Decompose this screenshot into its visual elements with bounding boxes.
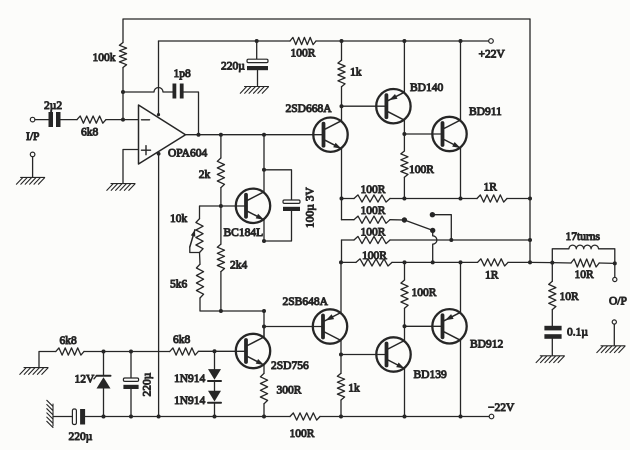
ground input <box>16 177 44 184</box>
capacitor 100µ 3V <box>283 200 300 211</box>
label 10R zobel <box>560 291 580 303</box>
capacitor 220µ bottom <box>72 409 85 425</box>
wire 100µ bottom branch <box>264 210 292 241</box>
svg-text:100µ 3V: 100µ 3V <box>305 186 317 228</box>
svg-text:O/P: O/P <box>609 296 627 308</box>
wire bias line <box>84 351 170 353</box>
svg-text:BD140: BD140 <box>410 82 443 94</box>
node row4 switch junction <box>431 260 435 264</box>
node row4 right <box>528 260 532 264</box>
resistor 100R row2 <box>354 216 390 223</box>
node 1k lower bottom <box>339 415 343 419</box>
resistor 1k lower <box>337 355 344 417</box>
wire row3 to row4 <box>341 240 343 262</box>
node feedback junction <box>121 90 125 94</box>
svg-text:220µ: 220µ <box>142 372 154 396</box>
label 100R driver <box>409 164 434 176</box>
svg-text:100k: 100k <box>93 52 116 64</box>
transistor Q1 2SD668A <box>313 118 347 152</box>
svg-text:100R: 100R <box>361 184 386 196</box>
resistor 10k trimmer <box>190 219 203 253</box>
label 220µ mid <box>142 372 154 396</box>
wire BD912 collector down <box>460 340 462 416</box>
node inverting input junction <box>121 118 125 122</box>
wire V- supply pin <box>157 152 161 417</box>
wire 100k bottom <box>122 68 124 120</box>
wire 220µ to ground <box>257 71 259 86</box>
label I/P <box>26 131 39 143</box>
svg-text:220µ: 220µ <box>221 61 245 73</box>
wire 2SB648A base <box>264 326 323 328</box>
svg-text:BC184L: BC184L <box>224 227 264 239</box>
transistor Q3 BD140 <box>376 89 410 123</box>
transistor Q4 2SB648A <box>313 309 347 343</box>
svg-text:1R: 1R <box>484 182 498 194</box>
resistor 100R row1 <box>354 195 390 202</box>
svg-text:1p8: 1p8 <box>174 68 192 80</box>
svg-text:100R: 100R <box>361 227 386 239</box>
label -22V <box>488 402 515 414</box>
svg-text:300R: 300R <box>277 385 302 397</box>
wire feedback with hop <box>123 88 173 93</box>
label 1p8 <box>174 68 192 80</box>
ground op-amp + <box>107 184 135 191</box>
node 220µ mid top <box>129 350 133 354</box>
label 2k4 <box>230 260 248 272</box>
switch throw upper contact <box>430 212 435 217</box>
svg-text:2k: 2k <box>199 169 211 181</box>
wire switch upper throw <box>432 215 451 240</box>
switch lever <box>404 220 432 230</box>
capacitor 1p8 <box>173 84 184 99</box>
ground O/P <box>597 346 625 353</box>
resistor 100R lower driver <box>401 262 408 326</box>
label 6k8 bias2 <box>173 334 191 346</box>
node 2k4 bottom <box>219 309 223 313</box>
wire +22V rail <box>159 40 291 42</box>
wire bottom rail <box>85 416 290 418</box>
label 6k8 input <box>81 127 99 139</box>
node 300R bottom <box>262 415 266 419</box>
inductor 17turns <box>552 245 615 263</box>
wire row1 <box>342 198 478 200</box>
input lower terminal <box>30 152 35 177</box>
label 1R upper <box>484 182 498 194</box>
node 2SB648A base junction <box>262 325 266 329</box>
label 1N914 first <box>174 373 206 385</box>
wire 10k to 5k6 <box>199 253 202 265</box>
transistor Q8 2SD756 <box>236 334 270 368</box>
label 100R row1 <box>361 184 386 196</box>
label 2SD668A <box>286 103 333 115</box>
wire BD911 collector up <box>459 39 463 120</box>
node row3 junction <box>449 238 453 242</box>
wire cap to 6k8 <box>61 119 78 121</box>
wire row3 <box>342 239 531 241</box>
node row4 left <box>339 260 343 264</box>
wire 5k6 bottom <box>200 298 264 311</box>
label 100µ 3V <box>305 186 317 228</box>
terminal +22V <box>489 39 494 44</box>
label BD139 <box>414 369 447 381</box>
svg-text:6k8: 6k8 <box>60 335 78 347</box>
input terminal I/P <box>30 117 48 122</box>
wire 2SB648A collector down <box>339 341 343 357</box>
wire BC184L collector <box>262 135 266 192</box>
wire 2SD668A emitter <box>341 149 343 199</box>
label 6k8 bias1 <box>60 335 78 347</box>
resistor 100k <box>119 43 126 68</box>
wire 100µ top branch <box>264 170 292 200</box>
wire row2 <box>342 219 405 221</box>
label 5k6 <box>170 279 188 291</box>
wire BD140 base <box>342 105 387 107</box>
svg-text:I/P: I/P <box>26 131 39 143</box>
svg-text:17turns: 17turns <box>566 231 601 243</box>
wire BD139 base <box>341 354 387 356</box>
capacitor 2µ2 <box>49 112 61 127</box>
diode D2 1N914 <box>208 381 221 417</box>
node row4 emitter junction <box>459 260 463 264</box>
capacitor 0.1µ <box>544 326 561 339</box>
transistor Q6 BD139 <box>376 337 410 371</box>
wire bottom rail right <box>320 416 489 418</box>
wire BD912 base <box>405 325 443 327</box>
wire 220µ top lead <box>256 41 258 59</box>
svg-text:100R: 100R <box>361 205 386 217</box>
label BC184L <box>224 227 264 239</box>
svg-text:100R: 100R <box>291 48 316 60</box>
wire 2SD668A collector <box>340 104 344 120</box>
svg-text:1R: 1R <box>485 270 499 282</box>
wire BD139 emitter down <box>404 369 406 417</box>
label 10R parallel <box>575 269 595 281</box>
label 2k <box>199 169 211 181</box>
ground zobel <box>536 356 564 363</box>
ground 220µ supply <box>240 87 268 94</box>
svg-text:2SD668A: 2SD668A <box>286 103 333 115</box>
label 100R bottom <box>290 428 315 440</box>
wire 2SD756 emitter down <box>263 365 265 373</box>
svg-text:12V: 12V <box>75 374 96 386</box>
wire BD140 emitter up <box>402 39 406 92</box>
node 1k top <box>340 39 344 43</box>
wire 2SB648A emitter up <box>340 262 342 312</box>
wire right rail <box>529 19 531 262</box>
wire 6k8 bias left <box>39 352 56 368</box>
label 100R supply <box>291 48 316 60</box>
svg-text:−22V: −22V <box>488 402 515 414</box>
svg-text:1N914: 1N914 <box>174 373 206 385</box>
node output right <box>613 261 617 265</box>
resistor 300R <box>260 373 267 416</box>
label 2µ2 <box>44 100 62 112</box>
node emitter column 311 <box>262 309 266 313</box>
wire 1p8 to output <box>184 92 199 135</box>
transistor Q7 BD912 <box>432 309 466 343</box>
svg-text:100R: 100R <box>290 428 315 440</box>
label +22V <box>479 49 506 61</box>
wire BD912 emitter up <box>460 262 462 312</box>
switch throw lower contact <box>430 228 435 233</box>
label 300R <box>277 385 302 397</box>
label 100R row4 <box>362 250 387 262</box>
wire BD911 emitter down <box>460 148 462 199</box>
svg-text:5k6: 5k6 <box>170 279 188 291</box>
transistor Q2 BC184L <box>236 189 270 223</box>
resistor 1R lower <box>478 259 531 266</box>
node output-feedback junction <box>197 133 201 137</box>
svg-text:100R: 100R <box>409 164 434 176</box>
resistor 5k6 <box>196 264 203 298</box>
svg-text:BD912: BD912 <box>470 339 503 351</box>
label 10k <box>170 213 188 225</box>
resistor 6k8 bias2 <box>170 348 199 355</box>
svg-text:OPA604: OPA604 <box>168 148 207 160</box>
wire to O/P terminal <box>614 263 616 277</box>
svg-text:100R: 100R <box>412 287 437 299</box>
node BD139 emitter bottom <box>403 415 407 419</box>
svg-text:BD911: BD911 <box>469 106 502 118</box>
wire base to 10k <box>199 206 202 219</box>
wire 2SD756 collector up <box>263 327 265 338</box>
ground bottom-left <box>47 400 53 427</box>
terminal -22V <box>489 414 494 419</box>
resistor 1k upper <box>338 41 345 106</box>
label 17turns <box>566 231 601 243</box>
wire bottom rail left <box>53 416 72 418</box>
node output <box>550 261 554 265</box>
label 100R lower driver <box>412 287 437 299</box>
node 2k tap <box>219 133 223 137</box>
wire row1 to row2 <box>341 199 343 220</box>
resistor 100R row4 <box>356 259 392 266</box>
wire supply rail right <box>316 40 489 42</box>
resistor 100R bottom <box>290 413 320 420</box>
label 1k upper <box>350 66 362 78</box>
svg-text:1k: 1k <box>350 66 362 78</box>
transistor Q5 BD911 <box>432 117 466 151</box>
svg-text:+22V: +22V <box>479 49 506 61</box>
terminal O/P lower <box>612 320 616 345</box>
resistor 100R row3 <box>354 236 390 243</box>
node 1N914 top <box>213 349 217 353</box>
node V- rail junction <box>157 415 161 419</box>
wire 10R to cap <box>551 310 553 326</box>
resistor 10R parallel <box>552 259 615 267</box>
op-amp U1 OPA604 <box>139 105 186 164</box>
label 2SB648A <box>283 296 329 308</box>
capacitor 220µ mid <box>123 352 138 417</box>
label BD140 <box>410 82 443 94</box>
svg-text:100R: 100R <box>362 250 387 262</box>
wire output line <box>186 134 324 136</box>
node row1 emitter junction <box>459 197 463 201</box>
label O/P <box>609 296 627 308</box>
svg-text:2k4: 2k4 <box>230 260 248 272</box>
svg-text:10R: 10R <box>575 269 595 281</box>
label 100k <box>93 52 116 64</box>
resistor 6k8 bias1 <box>56 348 84 355</box>
node row1 left <box>340 197 344 201</box>
wire bias to 2SD756 base <box>198 350 246 352</box>
resistor 10R zobel <box>549 281 556 309</box>
label BD912 <box>470 339 503 351</box>
wire BC184L emitter <box>262 220 266 243</box>
node BD912 collector bottom <box>459 415 463 419</box>
node row3 right <box>528 238 532 242</box>
terminal O/P upper <box>613 277 617 281</box>
wire BD139 collector up <box>403 324 407 340</box>
resistor 2k4 <box>217 206 224 311</box>
capacitor 220µ supply <box>247 59 268 70</box>
wire 6k8 to inverting input <box>106 119 139 121</box>
wire BC184L base <box>200 204 246 208</box>
svg-text:220µ: 220µ <box>69 431 93 443</box>
svg-text:1k: 1k <box>348 383 360 395</box>
svg-text:10k: 10k <box>170 213 188 225</box>
diode D1 1N914 <box>208 351 221 381</box>
label BD911 <box>469 106 502 118</box>
resistor 6k8 input <box>77 116 106 123</box>
label 2SD756 <box>271 360 309 372</box>
node BC184L collector tap <box>262 133 266 137</box>
svg-text:2µ2: 2µ2 <box>44 100 62 112</box>
node 220µ tap <box>255 39 259 43</box>
wire BD911 base <box>404 133 442 135</box>
node 1N914 bottom <box>213 415 217 419</box>
wire row4 <box>341 261 478 263</box>
node row1 right <box>528 197 532 201</box>
ground 6k8 bias <box>20 368 48 375</box>
resistor 100R driver <box>401 151 408 199</box>
node row1 100R junction <box>402 197 406 201</box>
label 1R lower <box>485 270 499 282</box>
resistor 1R upper <box>477 195 530 202</box>
svg-text:2SB648A: 2SB648A <box>283 296 329 308</box>
zener diode 12V <box>94 352 111 417</box>
wire V+ supply pin <box>157 41 160 116</box>
svg-text:6k8: 6k8 <box>81 127 99 139</box>
label 100R row3 <box>361 227 386 239</box>
resistor 100R supply <box>290 37 316 44</box>
label 220µ supply <box>221 61 245 73</box>
svg-text:10R: 10R <box>560 291 580 303</box>
wire BD140 collector down <box>402 120 406 151</box>
wire cap to ground <box>551 339 553 355</box>
wire switch lower to row4 with hop <box>433 230 437 262</box>
label 1N914 second <box>174 395 206 407</box>
label 0.1µ <box>567 327 588 339</box>
node row4 100R junction <box>403 260 407 264</box>
svg-text:BD139: BD139 <box>414 369 447 381</box>
node zener top <box>102 350 106 354</box>
wire output to 10R <box>551 263 553 282</box>
svg-text:6k8: 6k8 <box>173 334 191 346</box>
node 220µ mid bottom <box>129 415 133 419</box>
label OPA604 <box>168 148 207 160</box>
wire row4 to output node <box>530 261 552 263</box>
label 12V <box>75 374 96 386</box>
resistor 2k <box>217 135 224 206</box>
label 100R row2 <box>361 205 386 217</box>
svg-text:1N914: 1N914 <box>174 395 206 407</box>
svg-text:2SD756: 2SD756 <box>271 360 309 372</box>
switch pole contact <box>402 217 407 222</box>
svg-text:0.1µ: 0.1µ <box>567 327 588 339</box>
label 1k lower <box>348 383 360 395</box>
wire non-inverting input <box>123 150 139 184</box>
label 220µ bottom <box>69 431 93 443</box>
node zener bottom <box>102 415 106 419</box>
wire top rail left corner <box>123 19 530 43</box>
wire emitter column <box>263 311 265 337</box>
